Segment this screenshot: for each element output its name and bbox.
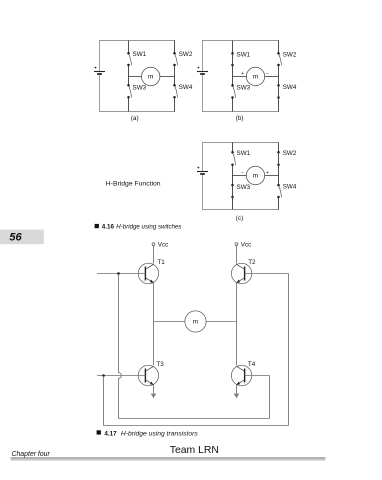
- wire: (b) left leg middle segment: [232, 65, 234, 85]
- wire: (c) SW2 closed link: [278, 152, 280, 165]
- svg-text:56: 56: [9, 231, 22, 243]
- wire: T4 emitter lead down: [236, 385, 238, 395]
- svg-text:SW3: SW3: [133, 84, 147, 91]
- svg-text:SW4: SW4: [283, 84, 297, 91]
- svg-text:SW3: SW3: [237, 184, 251, 191]
- svg-text:+: +: [241, 71, 244, 77]
- svg-text:m: m: [148, 74, 154, 81]
- svg-text:Vcc: Vcc: [241, 242, 252, 249]
- svg-text:+: +: [197, 66, 200, 72]
- wire: (a) left leg top segment: [128, 41, 130, 54]
- wire: (a) right leg middle segment: [174, 65, 176, 85]
- wire: (c) SW3 closed link: [232, 185, 234, 197]
- svg-text:4.16: 4.16: [102, 224, 115, 231]
- switch SW4 (b) (closed): contact dots: [277, 84, 280, 99]
- wire: inner drive loop right vertical up to T4 base: [269, 376, 271, 419]
- figure caption 4.16 marker square: [95, 224, 99, 228]
- svg-text:SW1: SW1: [237, 150, 251, 157]
- svg-text:H-Bridge Function: H-Bridge Function: [106, 180, 161, 187]
- wire: (c) left leg middle segment: [232, 165, 234, 185]
- wire: (c) right leg top segment: [278, 143, 280, 153]
- wire: (c) battery branch lower: [202, 175, 204, 210]
- svg-text:4.17: 4.17: [104, 430, 117, 437]
- svg-text:−: −: [266, 71, 269, 77]
- svg-text:SW2: SW2: [179, 51, 193, 58]
- svg-text:SW4: SW4: [179, 84, 193, 91]
- wire: outer drive loop left vertical (T3 base junction down): [103, 376, 105, 426]
- svg-text:SW2: SW2: [283, 51, 297, 58]
- wire: (b) battery branch upper: [202, 41, 204, 72]
- svg-text:+: +: [266, 170, 269, 176]
- wire: (c) top rail: [202, 142, 279, 144]
- power terminal Vcc (right): [235, 242, 251, 249]
- wire: (a) bottom rail: [99, 111, 175, 113]
- wire: (b) right leg middle segment: [278, 65, 280, 85]
- svg-text:(c): (c): [236, 215, 243, 222]
- ground arrow below T4: [234, 394, 240, 399]
- wire: (a) right leg top segment: [174, 41, 176, 54]
- wire: T2 base lead: [245, 273, 289, 275]
- svg-text:Team LRN: Team LRN: [170, 445, 219, 456]
- svg-text:Vcc: Vcc: [158, 242, 169, 249]
- wire: (b) left leg bottom segment: [232, 98, 234, 112]
- svg-text:T4: T4: [248, 361, 256, 368]
- wire: motor node down to T4 collector: [236, 322, 238, 366]
- svg-text:m: m: [193, 319, 199, 326]
- wire: T1 base lead: [97, 273, 145, 275]
- svg-text:SW2: SW2: [283, 150, 297, 157]
- wire: (a) left leg middle segment: [128, 65, 130, 85]
- wire: (c) battery branch upper: [202, 143, 204, 172]
- wire: (c) right leg bottom segment: [278, 197, 280, 210]
- svg-text:(a): (a): [131, 115, 139, 122]
- svg-text:m: m: [253, 74, 259, 81]
- wire: (a) top rail: [99, 40, 175, 42]
- wire: Vcc right to T2 collector: [236, 246, 238, 264]
- wire: (b) motor lead right: [265, 76, 279, 78]
- svg-text:H-bridge using switches: H-bridge using switches: [116, 224, 181, 231]
- switch SW3 (c) (closed): contact dots: [231, 184, 234, 198]
- wire: (a) motor lead left: [129, 76, 142, 78]
- wire: (a) battery branch lower: [99, 75, 101, 112]
- wire: (b) motor lead left: [233, 76, 247, 78]
- switch SW4 (a) (open): contact dots and lever: [173, 84, 177, 99]
- wire: T1 emitter down to motor node: [153, 283, 155, 322]
- ground arrow below T3: [151, 394, 157, 399]
- motor M (a): [142, 67, 160, 85]
- power terminal Vcc (left): [152, 242, 168, 249]
- motor M (4.17): [185, 311, 206, 332]
- wire: (b) right leg bottom segment: [278, 98, 280, 112]
- figure caption 4.17 marker square: [97, 430, 101, 434]
- svg-text:SW1: SW1: [133, 51, 147, 58]
- transistor T2 (NPN): [231, 263, 251, 283]
- wire: (a) right leg bottom segment: [174, 97, 176, 111]
- wire: (b) left leg top segment: [232, 41, 234, 54]
- battery B (b): [197, 66, 208, 74]
- wire: (a) motor lead right: [160, 76, 175, 78]
- svg-text:+: +: [94, 66, 97, 72]
- footer rule (gray shadow): [11, 458, 326, 460]
- wire: T3 base lead: [97, 375, 145, 377]
- switch SW2 (b) (open): contact dots and lever: [277, 52, 281, 66]
- wire: T3 emitter lead down: [153, 385, 155, 395]
- switch SW3 (a) (open): contact dots and lever: [127, 84, 131, 99]
- wire: inner drive loop bottom: [119, 418, 270, 420]
- wire: (b) top rail: [202, 40, 279, 42]
- wire: motor lead left: [154, 321, 185, 323]
- wire: outer drive loop bottom: [104, 425, 289, 427]
- transistor T4 (NPN): [231, 365, 251, 385]
- wire: motor lead right: [206, 321, 236, 323]
- svg-text:H-bridge using transistors: H-bridge using transistors: [121, 430, 199, 437]
- svg-text:SW4: SW4: [283, 184, 297, 191]
- svg-text:SW1: SW1: [237, 51, 251, 58]
- page number tab background: [0, 230, 44, 245]
- wire: (c) right leg middle segment: [278, 165, 280, 185]
- footer rule (dark top edge): [11, 457, 326, 459]
- motor M (c): [246, 166, 264, 184]
- wire: (a) battery branch upper: [99, 41, 101, 72]
- wire: (b) SW4 closed link: [278, 85, 280, 97]
- switch SW2 (a) (open): contact dots and lever: [173, 52, 177, 66]
- motor M (b): [246, 67, 264, 85]
- wire: T2 emitter down to motor node: [236, 283, 238, 322]
- wire: T4 base lead: [245, 375, 270, 377]
- svg-text:T3: T3: [156, 361, 164, 368]
- wire: motor node down to T3 collector: [153, 322, 155, 366]
- wire: (c) left leg bottom segment: [232, 197, 234, 210]
- battery B (a): [94, 66, 105, 74]
- junction node: T3 base / T2 drive: [102, 374, 105, 377]
- wire: (b) bottom rail: [202, 111, 279, 113]
- svg-text:(b): (b): [236, 115, 244, 122]
- junction node: T1 base / T4 drive: [117, 272, 120, 275]
- battery B (c): [197, 166, 208, 174]
- svg-text:T1: T1: [157, 259, 165, 266]
- svg-text:m: m: [253, 173, 259, 180]
- wire: (a) left leg bottom segment: [128, 97, 130, 111]
- switch SW3 (b) (open): contact dots and lever: [231, 84, 235, 99]
- svg-text:Chapter four: Chapter four: [12, 451, 51, 458]
- switch SW2 (c) (closed): contact dots: [277, 151, 280, 166]
- svg-text:SW3: SW3: [237, 85, 251, 92]
- wire: (c) left leg top segment: [232, 143, 234, 153]
- svg-text:−: −: [241, 170, 244, 176]
- wire: (c) motor lead right: [265, 175, 279, 177]
- wire: (b) right leg top segment: [278, 41, 280, 54]
- wire: inner drive loop vertical (T1 base junction down, hops over T3 base wire): [119, 274, 122, 419]
- transistor T1 (NPN): [138, 263, 158, 283]
- wire: outer drive loop right vertical up to T2 base: [288, 274, 290, 426]
- switch SW1 (a) (open): contact dots and lever: [127, 52, 131, 66]
- wire: (b) SW1 closed link: [232, 53, 234, 65]
- wire: (c) bottom rail: [202, 209, 279, 211]
- switch SW4 (c) (open): contact dots and lever: [277, 184, 281, 198]
- wire: Vcc left to T1 collector: [153, 246, 155, 264]
- switch SW1 (b) (closed): contact dots: [231, 52, 234, 66]
- svg-text:+: +: [197, 166, 200, 172]
- wire: (c) motor lead left: [233, 175, 247, 177]
- transistor T3 (NPN): [138, 365, 158, 385]
- switch SW1 (c) (open): contact dots and lever: [231, 151, 235, 166]
- svg-text:T2: T2: [248, 259, 256, 266]
- wire: (b) battery branch lower: [202, 75, 204, 112]
